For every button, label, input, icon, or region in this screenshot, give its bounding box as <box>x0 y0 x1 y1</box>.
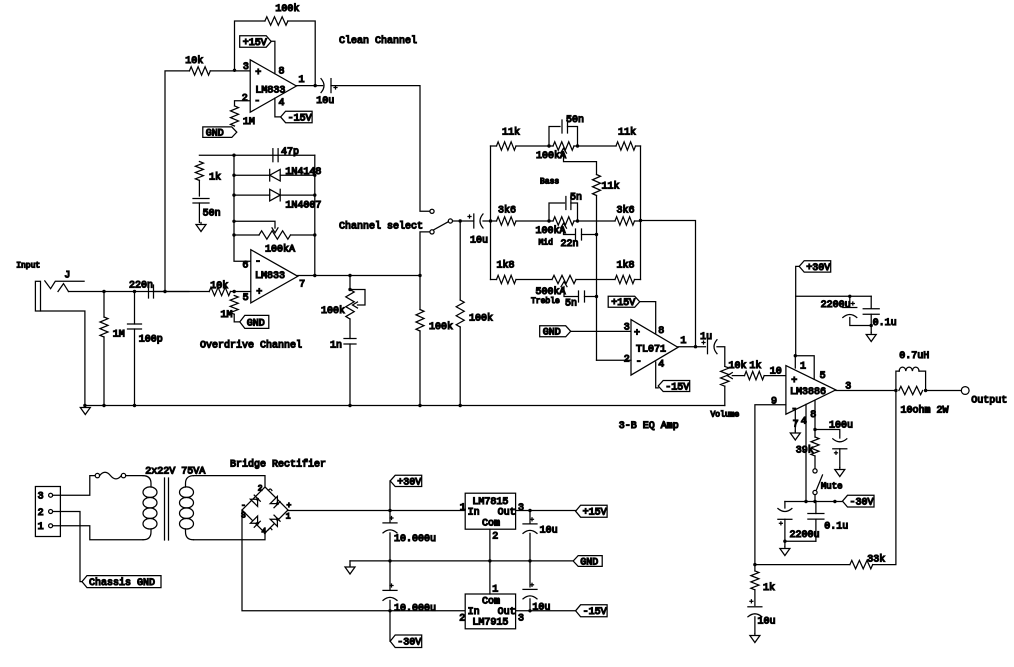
svg-text:Bridge Rectifier: Bridge Rectifier <box>230 458 326 470</box>
capacitor C 5n treble <box>579 291 585 302</box>
junction wiper left rail <box>232 220 235 223</box>
label 0.1u top <box>873 318 897 329</box>
potentiometer 100kA bass <box>553 142 574 153</box>
wire 1N4148 row right <box>280 174 315 176</box>
junction tl out <box>694 345 697 348</box>
label 5n treble <box>565 298 577 309</box>
wire input to 1M <box>103 292 105 318</box>
resistor R 1M clean <box>231 106 239 126</box>
capacitor C 0.1u neg <box>808 514 824 520</box>
label 0.7uH <box>899 351 929 362</box>
svg-text:-: - <box>636 357 642 368</box>
power tag +30V psu <box>390 475 422 488</box>
transformer T1 secondary <box>180 476 194 540</box>
label 2200u top <box>821 300 851 311</box>
wire fb 1k stub <box>754 565 756 571</box>
capacitor C 10000u pos <box>383 517 397 533</box>
label J <box>64 271 70 282</box>
svg-text:1k8: 1k8 <box>617 259 635 271</box>
svg-text:10: 10 <box>770 367 782 378</box>
wire 100u loop <box>815 430 840 439</box>
svg-text:1: 1 <box>286 512 291 521</box>
wire mid row to eq out <box>641 221 696 347</box>
wire clean input vertical <box>165 71 189 292</box>
label 10u psu2 <box>532 602 550 613</box>
svg-text:+15V: +15V <box>611 298 635 309</box>
svg-text:+30V: +30V <box>806 263 830 274</box>
capacitor C 10u psu2 <box>523 583 537 599</box>
svg-text:10k: 10k <box>210 280 228 292</box>
wire pin1 pin5 tie <box>795 356 814 380</box>
ground 100u <box>835 468 845 477</box>
wire treble pot right <box>576 279 615 281</box>
wire 100p bottom <box>134 329 136 406</box>
wire od output row <box>298 275 420 277</box>
wire 1u to volume <box>717 347 725 367</box>
junction pot left <box>232 233 235 236</box>
junction 4007 left <box>232 193 235 196</box>
bridge labels <box>241 485 292 537</box>
wire 10000u neg bot <box>389 600 391 610</box>
wire od pot wiper loop <box>350 290 365 306</box>
wire sw bottom throw <box>420 232 431 276</box>
label 100k pot <box>321 305 345 317</box>
power tag GND tl071 <box>540 326 571 339</box>
junction out left <box>894 389 897 392</box>
svg-text:11k: 11k <box>618 127 636 139</box>
label 10k od <box>210 280 228 292</box>
junction signal up clean <box>163 290 166 293</box>
power tag +15V tl071 <box>608 296 640 309</box>
label Clean Channel <box>339 35 417 47</box>
pin labels 7815 <box>460 503 524 543</box>
svg-text:-30V: -30V <box>850 498 874 509</box>
junction pot right <box>313 233 316 236</box>
wire pin9 feedback <box>755 405 786 565</box>
pin labels 7915 <box>459 585 524 625</box>
svg-text:+: + <box>255 68 261 79</box>
switch SW mute <box>813 469 823 495</box>
op-amp U4 LM3886 <box>786 366 836 415</box>
label 1k fb <box>763 582 775 594</box>
svg-text:0.1u: 0.1u <box>873 318 897 329</box>
capacitor C 22n <box>576 229 582 240</box>
label 100kA bass <box>536 150 566 162</box>
resistor R 11k bass left <box>497 142 517 150</box>
wire pin4 tl071 <box>656 362 659 388</box>
wire od pot top <box>349 276 351 290</box>
wire pin1 to +30V rail <box>796 266 800 355</box>
capacitor C 47p <box>273 149 278 162</box>
svg-text:+15V: +15V <box>583 508 607 519</box>
junction 7815 com gnd <box>488 559 491 562</box>
wire od pot row left <box>234 234 259 236</box>
label Mid <box>539 238 554 247</box>
svg-text:100kA: 100kA <box>265 244 295 256</box>
svg-text:1u: 1u <box>700 332 712 343</box>
wire bridge plus out <box>288 510 465 512</box>
wire sw common <box>453 220 474 222</box>
label Channel select <box>339 221 423 233</box>
svg-text:11k: 11k <box>502 127 520 139</box>
junction fb node <box>753 563 756 566</box>
label 10u psu1 <box>540 525 558 536</box>
svg-text:3: 3 <box>38 492 44 503</box>
wire bass wiper <box>564 153 597 175</box>
wire pin2 stub <box>235 101 251 106</box>
label 1k8 right <box>617 259 635 271</box>
svg-text:9: 9 <box>771 396 777 407</box>
junction pin4 rail <box>804 500 807 503</box>
wire 7915 out <box>516 610 576 612</box>
svg-text:LM833: LM833 <box>255 271 285 282</box>
svg-text:2200u: 2200u <box>821 300 851 311</box>
capacitor C 2200u top <box>843 302 857 318</box>
svg-text:Chassis GND: Chassis GND <box>89 577 155 589</box>
inductor L 0.7uH <box>896 367 926 390</box>
junction psu gnd cap <box>388 559 391 562</box>
wire 39k to mute <box>814 456 816 469</box>
wire bass 11k to pot <box>516 145 553 147</box>
svg-text:1k: 1k <box>763 582 775 594</box>
ground psu <box>345 565 355 574</box>
label LM833 clean <box>255 85 285 96</box>
wire tl071 out <box>678 346 706 348</box>
svg-text:50n: 50n <box>566 115 584 126</box>
wire 1n to bus <box>349 344 351 406</box>
wire mid wiper to 22n <box>564 228 575 235</box>
svg-text:2: 2 <box>258 485 263 494</box>
wire input signal row <box>69 291 210 293</box>
svg-text:4: 4 <box>658 359 664 370</box>
wire pin4 clean <box>275 98 281 117</box>
label 100k mid <box>429 321 453 333</box>
capacitor C 10u clean out <box>321 79 337 93</box>
svg-text:-: - <box>255 257 261 268</box>
power tag +15V psu <box>576 505 608 518</box>
svg-text:5n: 5n <box>565 298 577 309</box>
label 11k vert <box>602 181 620 193</box>
svg-text:4: 4 <box>262 528 267 537</box>
svg-text:Mid: Mid <box>539 238 554 247</box>
bridge rectifier diamond <box>242 487 288 533</box>
power tag +15V clean <box>240 36 272 49</box>
pin labels lm3886 <box>770 361 852 430</box>
wire pin2 feedback <box>597 359 632 361</box>
svg-text:3: 3 <box>243 62 249 73</box>
label 10k volume <box>729 360 747 372</box>
label 1N4148 <box>285 167 321 178</box>
potentiometer 10k volume <box>721 366 733 386</box>
svg-text:LM7915: LM7915 <box>472 617 508 628</box>
svg-text:33k: 33k <box>867 554 885 566</box>
junction mute rail <box>813 500 816 503</box>
svg-text:2: 2 <box>242 94 248 105</box>
wire od right rail <box>314 155 316 275</box>
wire to output jack <box>926 390 962 392</box>
ground pin7 <box>790 431 800 440</box>
wire psu gnd bus <box>350 560 573 562</box>
junction 7915 out cap <box>528 609 531 612</box>
wire volume bottom <box>724 386 726 405</box>
svg-text:GND: GND <box>247 318 265 329</box>
resistor R 1k8 treble left <box>497 275 517 283</box>
junction bus jack <box>83 404 86 407</box>
junction od pin5 node <box>233 290 236 293</box>
junction bass pot l <box>547 144 550 147</box>
wire fuse to primary <box>126 475 143 477</box>
svg-text:-15V: -15V <box>665 382 689 393</box>
label 5n mid <box>570 192 582 203</box>
power tag GND clean <box>203 127 237 140</box>
diode bridge BL <box>250 516 260 527</box>
svg-text:1N4148: 1N4148 <box>285 167 321 178</box>
wire -30V tag stub <box>389 611 391 641</box>
label 33k <box>867 554 885 566</box>
wire pin4 down <box>805 404 807 501</box>
switch SW channel select <box>430 209 453 234</box>
svg-text:22n: 22n <box>561 239 579 250</box>
label 3k6 mid right <box>617 204 635 216</box>
diode bridge TR <box>270 496 280 507</box>
svg-text:-: - <box>241 501 246 510</box>
wire lm3886 output <box>836 390 896 392</box>
svg-text:10ohm 2W: 10ohm 2W <box>901 405 949 417</box>
svg-text:-15V: -15V <box>583 607 607 618</box>
junction rail 2200u <box>833 500 836 503</box>
wire 7915 com <box>489 561 491 594</box>
svg-text:3-B EQ Amp: 3-B EQ Amp <box>619 421 679 432</box>
svg-text:GND: GND <box>206 129 224 140</box>
svg-text:1: 1 <box>680 336 686 347</box>
svg-text:+: + <box>287 502 292 511</box>
wire pin8 clean <box>271 41 275 73</box>
svg-text:100p: 100p <box>139 335 163 346</box>
label 10k <box>185 55 203 67</box>
label 50n od <box>203 209 221 220</box>
label Bridge Rectifier <box>230 458 326 470</box>
wire 2200u neg bottom <box>785 519 816 541</box>
junction od loop top-left <box>232 154 235 157</box>
regulator U6 LM7915 <box>465 594 515 629</box>
wire bridge minus down <box>242 510 390 611</box>
svg-text:+: + <box>256 288 262 299</box>
power tag -30V psu <box>390 635 422 649</box>
svg-text:1k: 1k <box>209 172 221 184</box>
junction 4007 right <box>313 193 316 196</box>
resistor R 100k clean feedback <box>265 17 288 25</box>
svg-text:50n: 50n <box>203 209 221 220</box>
wire 0.1u neg bottom <box>815 519 817 541</box>
wire pin8 down <box>814 400 816 429</box>
svg-text:1k: 1k <box>749 360 761 372</box>
pin labels tl071 <box>624 322 687 370</box>
wire 10u fb to gnd <box>754 617 756 634</box>
wire jack sleeve <box>41 311 85 406</box>
label 22n <box>561 239 579 250</box>
capacitor C 100p <box>128 324 142 329</box>
svg-text:2200u: 2200u <box>790 530 820 541</box>
wire 10u select out <box>483 220 491 222</box>
wire gnd to pin3 <box>571 330 631 332</box>
svg-text:100k: 100k <box>321 305 345 317</box>
svg-text:10u: 10u <box>470 236 488 247</box>
label Mute <box>821 481 843 491</box>
svg-text:Input: Input <box>16 261 40 270</box>
label 220n <box>129 280 153 291</box>
wire 220n gap cover <box>154 291 166 293</box>
pin labels clean opamp <box>242 62 305 109</box>
wire 10000u pos bot <box>389 533 391 561</box>
wire bass right end <box>636 145 641 147</box>
wire pin7 gnd <box>794 410 796 431</box>
label Volume <box>711 411 740 420</box>
svg-text:In: In <box>468 508 480 519</box>
label 100kA od <box>265 244 295 256</box>
label 1M input <box>113 330 125 341</box>
svg-text:Com: Com <box>482 597 500 608</box>
label Overdrive Channel <box>200 339 302 351</box>
capacitor C 220n <box>149 285 154 298</box>
wire treble right end <box>635 279 641 281</box>
svg-text:6: 6 <box>242 261 248 272</box>
ground 2200u neg <box>780 547 790 556</box>
capacitor C 10u fb <box>748 600 762 617</box>
resistor R 1k fb <box>751 571 759 590</box>
wire 50n to gnd <box>198 203 200 223</box>
connector mains <box>35 487 60 537</box>
svg-text:100kA: 100kA <box>536 150 566 162</box>
wire psu gnd stub <box>349 561 351 565</box>
resistor R 1M od <box>230 296 238 315</box>
wire secondary top to bridge <box>194 476 266 487</box>
svg-text:3k6: 3k6 <box>498 204 516 216</box>
potentiometer 500kA treble <box>552 275 576 286</box>
svg-text:100k: 100k <box>429 321 453 333</box>
label 11k bass right <box>618 127 636 139</box>
wire 7815 com <box>489 529 491 561</box>
ground 30V caps <box>866 333 876 342</box>
label 1N4007 <box>285 201 321 212</box>
svg-text:10.000u: 10.000u <box>394 604 436 615</box>
junction od out sw <box>418 274 421 277</box>
wire pin3 to fuse <box>53 476 96 496</box>
wire od out to 100k mid <box>419 276 421 310</box>
label 2200u neg <box>790 530 820 541</box>
svg-text:11k: 11k <box>602 181 620 193</box>
resistor R 10k clean input <box>189 67 210 75</box>
junction tone right mid <box>639 219 642 222</box>
wire gnd stub 2200u <box>784 541 786 546</box>
wire 1N4007 row <box>234 194 270 196</box>
svg-text:10u: 10u <box>540 525 558 536</box>
wire +30V rail <box>796 295 872 297</box>
label 0.1u neg <box>824 522 848 533</box>
svg-text:8: 8 <box>658 326 664 337</box>
junction input 1M <box>102 290 105 293</box>
wire bass row left <box>491 145 497 147</box>
connector output <box>961 387 969 395</box>
wire mid right end <box>635 220 641 222</box>
svg-text:3: 3 <box>624 322 630 333</box>
svg-text:Output: Output <box>971 395 1007 406</box>
svg-text:Overdrive Channel: Overdrive Channel <box>200 339 302 351</box>
svg-text:Bass: Bass <box>540 177 559 186</box>
diode D2 1N4007 <box>270 189 281 201</box>
svg-text:Out: Out <box>498 508 516 519</box>
svg-text:1N4007: 1N4007 <box>285 201 321 212</box>
power tag -15V clean <box>281 111 313 124</box>
label 100k <box>275 3 299 15</box>
wire od left rail <box>234 155 251 261</box>
svg-text:10u: 10u <box>316 96 334 107</box>
label 50n bass <box>566 115 584 126</box>
junction out right <box>924 389 927 392</box>
svg-text:0.1u: 0.1u <box>824 522 848 533</box>
junction 4148 left <box>232 174 235 177</box>
capacitor C 10u select <box>468 214 483 228</box>
capacitor C 50n od <box>193 199 209 204</box>
capacitor C 0.1u top <box>863 309 879 315</box>
resistor R 33k <box>850 560 873 568</box>
diode bridge TL <box>250 495 260 506</box>
label 100k right <box>469 313 493 325</box>
label 3-B EQ Amp <box>619 421 679 432</box>
wire 2200u neg stub <box>784 502 786 509</box>
svg-text:39k: 39k <box>796 444 814 456</box>
wire 1N4007 row right <box>280 194 315 196</box>
wire 2200u bottom loop <box>850 318 871 326</box>
svg-text:8: 8 <box>279 66 285 77</box>
label 1k od <box>209 172 221 184</box>
junction -30 node <box>388 609 391 612</box>
junction input 100p <box>133 290 136 293</box>
wire 100k right top <box>459 221 461 300</box>
svg-text:-30V: -30V <box>397 638 421 649</box>
svg-text:LM7815: LM7815 <box>472 497 508 508</box>
svg-text:+30V: +30V <box>397 477 421 488</box>
svg-text:10u: 10u <box>758 617 776 628</box>
capacitor C 10u psu1 <box>523 518 537 534</box>
label 1n <box>330 340 342 351</box>
wire 5n treble to center <box>585 296 597 298</box>
potentiometer 100kA mid <box>553 217 574 228</box>
resistor R 3k6 mid right <box>615 217 635 225</box>
wire clean output <box>296 85 322 87</box>
wire 100u to gnd <box>839 449 841 468</box>
wire od pot row right <box>291 234 315 236</box>
wire clean 100k feedback loop <box>235 21 265 70</box>
svg-text:1: 1 <box>299 75 305 86</box>
junction tone left mid <box>489 219 492 222</box>
label 500kA <box>536 286 566 298</box>
junction pin1 30V <box>794 354 797 357</box>
capacitor C 1u <box>702 340 717 354</box>
wire signal row 2 <box>165 291 189 293</box>
wire 50n loop right <box>568 127 578 147</box>
label 100p <box>139 335 163 346</box>
wire treble wiper to 5n <box>564 287 578 297</box>
connector J input jack <box>35 281 84 311</box>
wire pin2 to chassis <box>53 512 82 582</box>
resistor R 1k8 treble right <box>615 275 635 283</box>
wire 10u psu1 top <box>529 511 531 524</box>
svg-text:100kA: 100kA <box>536 225 566 237</box>
label 10u fb <box>758 617 776 628</box>
resistor R 10k od input <box>209 287 230 295</box>
svg-text:10u: 10u <box>532 602 550 613</box>
resistor R 39k <box>811 437 819 456</box>
